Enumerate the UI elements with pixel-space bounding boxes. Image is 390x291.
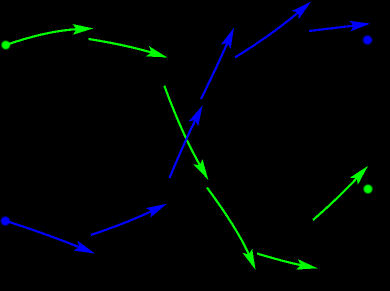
green trajectory arrow G4: [207, 188, 256, 271]
green trajectory arrow G3: [164, 86, 208, 180]
green trajectory arrow G6: [313, 166, 368, 220]
blue trajectory arrow B2: [91, 204, 167, 235]
green dot end P1 final: [364, 185, 373, 194]
blue trajectory arrow B3: [170, 105, 203, 178]
blue dot end P2 final: [363, 36, 372, 45]
blue trajectory arrow B4: [201, 28, 234, 100]
green trajectory arrow G1: [6, 24, 94, 45]
blue trajectory arrow B6: [309, 21, 371, 32]
blue dot start P2: [1, 217, 10, 226]
blue trajectory arrow B1: [6, 221, 95, 254]
green trajectory arrow G5: [257, 254, 318, 270]
blue trajectory arrow B5: [235, 2, 311, 58]
green trajectory arrow G2: [89, 39, 168, 58]
green dot start P1: [2, 41, 11, 50]
